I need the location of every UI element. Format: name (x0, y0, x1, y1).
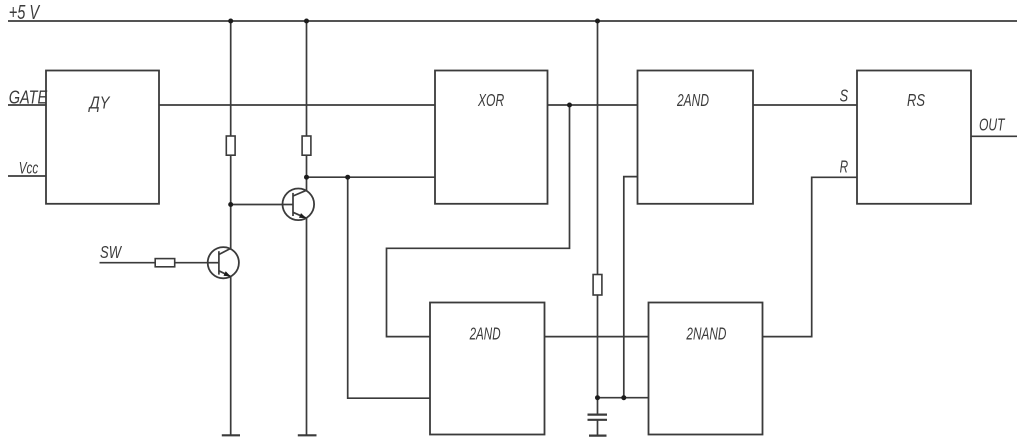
svg-text:OUT: OUT (979, 115, 1005, 135)
svg-text:+5 V: +5 V (9, 2, 41, 24)
svg-text:GATE: GATE (9, 87, 48, 107)
svg-text:2AND: 2AND (676, 90, 709, 110)
svg-text:Vcc: Vcc (19, 159, 39, 178)
svg-text:SW: SW (100, 242, 122, 262)
svg-text:ДY: ДY (88, 93, 111, 113)
svg-text:2AND: 2AND (469, 324, 501, 344)
svg-text:2NAND: 2NAND (686, 324, 727, 344)
svg-text:S: S (840, 86, 849, 106)
svg-text:RS: RS (907, 90, 925, 110)
svg-text:XOR: XOR (477, 90, 504, 110)
svg-text:R: R (840, 157, 849, 177)
